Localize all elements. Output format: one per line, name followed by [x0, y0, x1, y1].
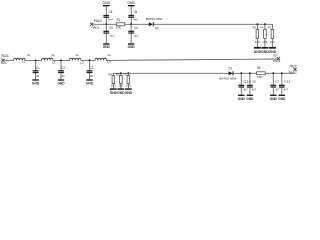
diode D2 label BAT62-03W	[146, 17, 163, 21]
capacitor C3	[87, 66, 94, 78]
svg-text:4n7: 4n7	[252, 87, 257, 91]
svg-text:3u: 3u	[51, 53, 55, 57]
svg-text:C8: C8	[109, 10, 113, 14]
svg-text:L2: L2	[52, 61, 56, 65]
wire C3 stub	[89, 60, 91, 70]
wire stub to R3	[271, 24, 273, 29]
wire C4 to ground	[130, 34, 132, 44]
svg-text:PAD1: PAD1	[289, 71, 297, 75]
node C3 junction	[88, 59, 90, 61]
svg-text:GND: GND	[238, 97, 246, 101]
ground above C6	[127, 1, 135, 6]
wire L4 to OUT port	[107, 59, 278, 60]
wire stub R10	[127, 73, 129, 75]
wire node A to C5	[105, 24, 107, 31]
wire node B to C4	[130, 24, 132, 31]
svg-text:GND: GND	[32, 82, 40, 86]
node C2 junction	[60, 59, 62, 61]
svg-text:BAT62-03W: BAT62-03W	[219, 76, 236, 80]
ground below R4	[261, 47, 269, 54]
resistor R8	[112, 76, 115, 84]
wire C7 to ground	[272, 88, 274, 95]
svg-text:4n7: 4n7	[134, 17, 139, 21]
junction node at R5	[256, 23, 258, 25]
wire R8 to ground	[112, 84, 114, 89]
label R4	[260, 26, 264, 30]
wire top GND to C6	[130, 6, 132, 15]
capacitor C7	[270, 79, 279, 91]
label L3	[80, 61, 84, 65]
value R5 150	[255, 40, 261, 44]
port OUT (PAD4)	[273, 53, 281, 63]
port PAD2 (RF input 2)	[90, 19, 102, 29]
wire stub to R5	[256, 24, 258, 29]
wire stub to R4	[264, 24, 266, 29]
wire C2 stub	[60, 60, 62, 70]
svg-text:C6: C6	[134, 10, 138, 14]
ground below C7	[270, 95, 278, 101]
junction at R10	[127, 72, 129, 74]
resistor R1	[116, 18, 125, 29]
wire PAD3 to L1	[5, 59, 14, 61]
svg-text:PAD2: PAD2	[91, 25, 99, 29]
svg-text:PREF: PREF	[290, 64, 297, 68]
svg-text:R3: R3	[268, 26, 272, 30]
capacitor C2	[58, 66, 65, 78]
inductor L2	[42, 58, 54, 60]
resistor R5	[256, 29, 259, 38]
svg-text:4n7: 4n7	[243, 87, 248, 91]
svg-text:GND: GND	[127, 1, 135, 5]
wire R1 to D2	[125, 23, 149, 25]
svg-text:R5: R5	[253, 26, 257, 30]
svg-text:GND: GND	[128, 45, 136, 49]
svg-text:R4: R4	[260, 26, 264, 30]
ground below C8	[246, 95, 254, 101]
ground below R5	[254, 47, 262, 54]
wire C11 to ground	[281, 88, 283, 95]
wire D2 to resistor bank	[153, 23, 273, 25]
label R9	[116, 72, 120, 76]
label R10	[124, 72, 128, 76]
svg-text:100: 100	[257, 75, 263, 79]
svg-text:C8: C8	[252, 79, 256, 83]
svg-text:100: 100	[116, 25, 122, 29]
svg-text:R6: R6	[257, 66, 261, 70]
port PREF (PAD1)	[289, 64, 297, 74]
wire stub R9	[120, 73, 122, 75]
junction at C7	[272, 72, 274, 74]
svg-text:OUT: OUT	[273, 53, 278, 57]
resistor R10	[127, 76, 130, 84]
svg-text:BAT62-03W: BAT62-03W	[146, 17, 163, 21]
capacitor C1	[33, 66, 40, 78]
svg-text:3p: 3p	[36, 74, 40, 78]
port PAD3 (RF input)	[1, 54, 9, 65]
wire R4 to ground	[264, 38, 266, 47]
svg-text:3p: 3p	[61, 74, 65, 78]
svg-text:PAD3: PAD3	[1, 61, 6, 65]
svg-text:4n7: 4n7	[134, 34, 139, 38]
label R3	[268, 26, 272, 30]
svg-text:R10: R10	[124, 72, 128, 76]
svg-text:D2: D2	[155, 26, 159, 30]
ground below C1	[32, 79, 40, 85]
wire C5 to ground	[105, 34, 107, 44]
ground below C11	[278, 95, 286, 101]
capacitor C10	[238, 79, 251, 91]
value R4 150	[262, 40, 268, 44]
svg-text:C4: C4	[134, 26, 138, 30]
value L1 3u	[27, 53, 31, 57]
wire L2 to node C2	[53, 59, 70, 61]
value R9	[118, 83, 123, 87]
svg-text:4n7: 4n7	[275, 87, 280, 91]
node C1 junction	[35, 59, 37, 61]
junction at C10	[240, 72, 242, 74]
wire C1 to ground	[35, 73, 37, 79]
resistor R3	[271, 29, 274, 38]
svg-text:L1: L1	[22, 60, 26, 64]
value R10	[126, 83, 131, 87]
svg-text:C7: C7	[276, 79, 280, 83]
svg-text:3u: 3u	[107, 53, 111, 57]
svg-text:C1: C1	[36, 66, 40, 70]
svg-text:D1: D1	[229, 67, 233, 71]
ground below C2	[57, 79, 65, 85]
node A junction	[105, 23, 107, 25]
capacitor C8	[247, 79, 256, 91]
node B junction	[130, 23, 132, 25]
ground below C10	[238, 95, 246, 101]
wire L1 to node C1	[25, 59, 41, 61]
svg-text:C3: C3	[90, 66, 94, 70]
wire R3 to ground	[271, 38, 273, 47]
svg-text:GND: GND	[125, 91, 133, 95]
ground below C3	[86, 79, 94, 85]
wire top GND to C8	[105, 6, 107, 15]
svg-text:GND: GND	[57, 82, 65, 86]
wire L3 to node C3	[81, 59, 95, 61]
diode D1 value BAT62-03W	[219, 76, 236, 80]
label R8	[109, 72, 113, 76]
wire R5 to ground	[256, 38, 258, 47]
inductor L4	[95, 58, 107, 60]
ground below R8	[110, 88, 118, 95]
value R3 150	[270, 40, 276, 44]
svg-text:3u: 3u	[75, 53, 79, 57]
wire C2 to ground	[60, 73, 62, 79]
label R5	[253, 26, 257, 30]
svg-text:C11: C11	[284, 79, 291, 83]
inductor L3	[70, 58, 82, 60]
svg-text:4n7: 4n7	[109, 17, 114, 21]
svg-text:R9: R9	[116, 72, 120, 76]
resistor R6	[257, 66, 266, 79]
value L4 3u	[107, 53, 111, 57]
svg-text:R1: R1	[117, 18, 121, 22]
wire PAD2 to R1	[94, 23, 117, 25]
wire C10 stub	[240, 73, 242, 85]
svg-text:GND: GND	[278, 97, 286, 101]
wire C3 to ground	[89, 73, 91, 79]
resistor R9	[120, 76, 123, 84]
capacitor C8	[103, 10, 113, 21]
ground above C8	[103, 1, 111, 6]
capacitor C6	[128, 10, 138, 21]
svg-text:PAD4: PAD4	[273, 59, 281, 63]
label L1	[22, 60, 26, 64]
diode D1	[229, 71, 234, 75]
junction at R9	[120, 72, 122, 74]
diode D2	[149, 22, 159, 30]
ground below C5	[103, 43, 111, 49]
resistor R4	[264, 29, 267, 38]
svg-text:C2: C2	[61, 66, 65, 70]
wire C8 stub	[249, 73, 251, 85]
svg-text:PAD3: PAD3	[1, 54, 9, 58]
svg-text:4n7: 4n7	[110, 34, 115, 38]
svg-text:GND: GND	[86, 82, 94, 86]
svg-text:3p: 3p	[90, 74, 94, 78]
wire R9 to ground	[120, 84, 122, 89]
svg-text:GND: GND	[246, 97, 254, 101]
svg-text:L3: L3	[80, 61, 84, 65]
wire C1 stub	[35, 60, 37, 70]
inductor L1	[14, 58, 26, 60]
wire stub R8	[112, 73, 114, 75]
svg-text:GND: GND	[103, 1, 111, 5]
wire C6 to node B	[130, 18, 132, 24]
wire C8 to ground	[249, 88, 251, 95]
label L2	[52, 61, 56, 65]
wire C10 to ground	[240, 88, 242, 95]
ground below R10	[125, 88, 133, 95]
value L2 3u	[51, 53, 55, 57]
svg-text:3u: 3u	[27, 53, 31, 57]
wire R10 to ground	[127, 84, 129, 89]
value R8	[111, 83, 116, 87]
ground below R3	[269, 47, 277, 54]
wire C11 stub	[281, 73, 283, 85]
svg-text:PAD2: PAD2	[94, 19, 102, 23]
ground below R9	[117, 88, 125, 95]
label L4	[108, 60, 112, 64]
junction at C8	[249, 72, 251, 74]
ground below C4	[128, 43, 136, 49]
junction node at R4	[264, 23, 266, 25]
capacitor C4	[128, 26, 139, 38]
wire C8 to node A	[105, 18, 107, 24]
svg-text:GND: GND	[270, 97, 278, 101]
diode D1 label	[229, 67, 233, 71]
svg-text:R8: R8	[109, 72, 113, 76]
svg-text:4n7: 4n7	[284, 87, 289, 91]
capacitor C11	[279, 79, 291, 91]
wire detector net	[113, 72, 295, 74]
svg-text:C5: C5	[109, 26, 113, 30]
capacitor C5	[103, 26, 114, 38]
svg-text:GND: GND	[103, 45, 111, 49]
wire C7 stub	[272, 73, 274, 85]
value L3 3u	[75, 53, 79, 57]
junction at C11	[281, 72, 283, 74]
